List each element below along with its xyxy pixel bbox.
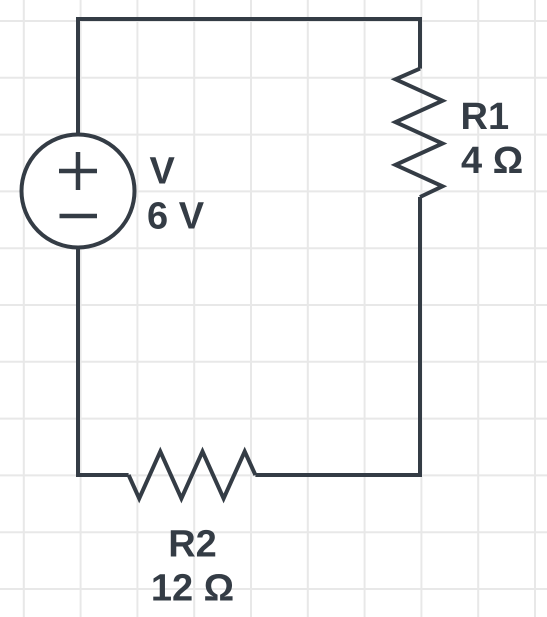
label: R1 4 Ω — [461, 96, 524, 182]
wire: bottom-left (R2 left lead to corner, up to V-) — [78, 246, 129, 475]
svg-text:6 V: 6 V — [147, 196, 205, 238]
svg-text:R2: R2 — [168, 524, 217, 566]
wire: right side (R1 down to bottom-right corner, to R2 right lead) — [255, 197, 420, 475]
voltage source V — [22, 135, 135, 248]
wire: top net (V+ up, across, down to R1) — [78, 19, 420, 136]
resistor R1 — [396, 69, 443, 197]
label: V 6 V — [147, 151, 205, 238]
resistor R2 — [129, 452, 256, 499]
svg-text:4 Ω: 4 Ω — [461, 140, 523, 182]
svg-text:R1: R1 — [461, 96, 510, 138]
svg-text:V: V — [150, 151, 176, 193]
svg-text:12 Ω: 12 Ω — [151, 567, 234, 609]
label: R2 12 Ω — [151, 524, 234, 610]
